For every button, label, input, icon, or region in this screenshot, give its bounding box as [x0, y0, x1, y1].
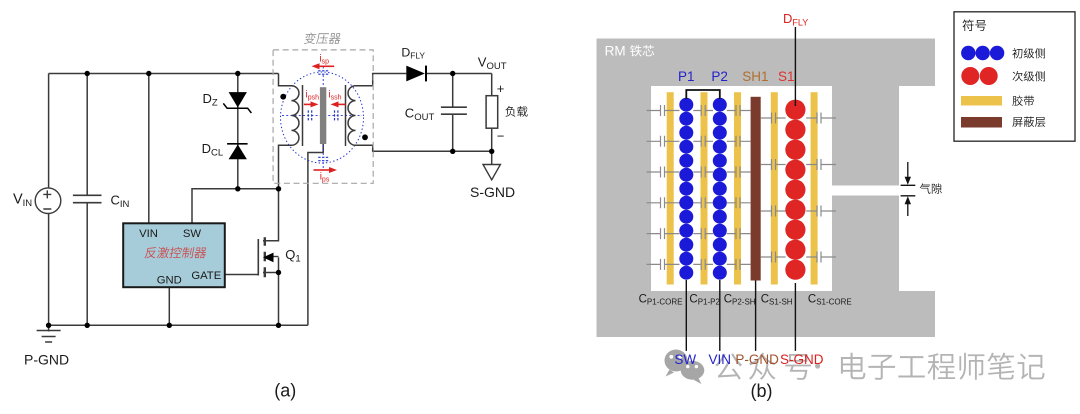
label qixi (air gap): [920, 183, 942, 194]
svg-text:SW: SW: [183, 228, 202, 240]
label fanji kongzhiqi (flyback controller): [144, 247, 207, 258]
dashed line vertical shield axis: [322, 67, 324, 169]
wire P2 to VIN: [719, 280, 721, 351]
legend label pingbiceng (shield layer): [1012, 117, 1045, 127]
label fuzai (load): [505, 106, 527, 117]
svg-text:(b): (b): [751, 381, 773, 401]
capacitor C_P1-CORE row y=172: [647, 167, 680, 178]
legend label cijice (secondary side): [1012, 71, 1045, 81]
parasitic coupling ellipse (blue dotted): [281, 72, 364, 163]
diode DCL: [227, 144, 248, 159]
transformer secondary winding: [348, 86, 355, 146]
current arrow i_ps: [314, 169, 330, 171]
capacitor C_P1-CORE row y=141.3: [647, 136, 680, 147]
RM core center leg upper (above air gap): [832, 86, 899, 186]
legend shield bar: [961, 117, 1002, 128]
node load bottom junction: [489, 149, 494, 154]
capacitor C_P1-P2 row y=202.8: [693, 197, 713, 208]
zener diode DZ: [223, 92, 251, 113]
svg-text:GND: GND: [157, 275, 182, 287]
current arrow i_ssh: [339, 103, 346, 105]
capacitor C_P2-SH row y=233.6: [727, 228, 751, 239]
transformer dashed boundary box: [273, 50, 373, 183]
svg-text:P1: P1: [678, 69, 695, 84]
current arrow i_sp: [320, 65, 335, 67]
node DCL bottom junction: [235, 186, 240, 191]
wire SW to drain node: [192, 189, 279, 224]
op-amp/controller U1 flyback controller box: [123, 223, 225, 287]
capacitor C_P1-CORE row y=202.8: [647, 197, 680, 208]
wire VIN source top: [48, 74, 50, 189]
capacitor CIN: [73, 195, 102, 202]
svg-text:P-GND: P-GND: [24, 352, 69, 368]
current arrow i_psh: [304, 103, 311, 105]
wire SH1 to P-GND: [755, 281, 757, 351]
capacitor parasitic primary-shield: [308, 110, 311, 120]
RM core left leg: [597, 86, 652, 291]
watermark wechat icon: [665, 350, 705, 385]
svg-text:S-GND: S-GND: [780, 352, 824, 367]
winding S1 turns (red): [785, 100, 805, 280]
wire PGND bottom rail: [49, 324, 308, 326]
watermark interpunct: [815, 363, 820, 368]
node Q1 source-body junction: [276, 270, 281, 275]
shield layer SH1 bar: [751, 97, 761, 281]
wire CIN branch: [86, 74, 88, 326]
svg-text:VIN: VIN: [709, 352, 732, 367]
capacitor parasitic bottom (shield): [318, 157, 328, 160]
wire COUT branch: [452, 74, 454, 152]
wire GATE to Q1: [225, 274, 258, 276]
capacitor C_S1-CORE row y=164.5: [806, 159, 836, 170]
transformer core bar left: [302, 85, 304, 146]
capacitor C_P1-CORE row y=264.4: [647, 259, 680, 270]
capacitor C_P1-P2 row y=172: [693, 167, 713, 178]
tape bar 1 (jiaodai): [667, 92, 674, 284]
wire primary bottom lead: [279, 145, 292, 189]
wire shield lead to PGND rail: [308, 144, 323, 325]
node GND rail junction: [167, 323, 172, 328]
ground P-GND symbol: [37, 331, 61, 343]
capacitor C_P1-P2 row y=233.6: [693, 228, 713, 239]
svg-text:RM: RM: [605, 44, 626, 59]
capacitor C_P2-SH row y=264.4: [727, 259, 751, 270]
node DZ top junction: [235, 71, 240, 76]
capacitor C_P2-SH row y=141.3: [727, 136, 751, 147]
legend label jiaodai (tape): [1012, 95, 1034, 105]
capacitor C_P2-SH row y=202.8: [727, 197, 751, 208]
wire clamp branch DZ DCL: [237, 74, 239, 189]
capacitor C_P1-P2 row y=264.4: [693, 259, 713, 270]
tape bar 4 (jiaodai): [771, 92, 778, 284]
voltage source VIN symbol: [35, 188, 61, 214]
capacitor C_S1-SH row y=164.5: [761, 159, 786, 170]
capacitor C_S1-SH row y=211: [761, 206, 786, 217]
wire P1-P2 series link bracket: [686, 90, 720, 99]
capacitor parasitic top (shield): [318, 71, 328, 74]
air gap dimension arrows: [901, 162, 916, 216]
capacitor C_S1-SH row y=118: [761, 113, 786, 124]
transistor Q1 body arrow: [263, 253, 274, 263]
tape bar 5 (jiaodai): [811, 92, 818, 284]
watermark text dianzi gongchengshi biji: [841, 353, 1045, 380]
resistor load (fuzai): [486, 96, 498, 129]
svg-text:VIN: VIN: [139, 228, 158, 240]
wire top rail: [49, 73, 279, 75]
capacitor C_P1-CORE row y=110.5: [647, 105, 680, 116]
svg-text:P2: P2: [711, 69, 728, 84]
capacitor C_S1-CORE row y=118: [806, 113, 836, 124]
node primary-drain junction: [276, 186, 281, 191]
transistor Q1 MOSFET: [258, 237, 278, 277]
label transformer (bianyaqi): [304, 33, 342, 44]
svg-text:(a): (a): [274, 381, 296, 401]
legend secondary circles: [961, 67, 997, 85]
capacitor parasitic secondary-shield: [335, 110, 338, 120]
wire secondary bottom lead / output bottom rail: [356, 145, 492, 151]
wire S1 to S-GND: [794, 283, 796, 351]
wire VIN pin: [148, 74, 150, 224]
winding P2 turns (blue): [713, 98, 727, 280]
svg-text:SH1: SH1: [742, 69, 768, 84]
winding P1 turns (blue): [679, 98, 693, 280]
node COUT bottom junction: [450, 149, 455, 154]
primary phase dot: [280, 94, 286, 100]
RM core top band: [597, 39, 936, 87]
legend box: [954, 12, 1075, 141]
capacitor COUT: [441, 107, 467, 114]
wire GND pin: [168, 287, 170, 325]
tape bar 2 (jiaodai): [701, 92, 708, 284]
svg-text:S1: S1: [778, 69, 795, 84]
wire P1 to SW: [685, 280, 687, 351]
wire Q1 drain: [263, 189, 279, 241]
node VIN top junction: [146, 71, 151, 76]
tape bar 3 (jiaodai): [734, 92, 741, 284]
transformer primary winding: [292, 86, 299, 146]
capacitor C_S1-CORE row y=211: [806, 206, 836, 217]
capacitor C_P2-SH row y=110.5: [727, 105, 751, 116]
legend label chujice (primary side): [1012, 48, 1045, 58]
transformer core bar right: [345, 85, 347, 146]
svg-text:SW: SW: [674, 352, 696, 367]
capacitor C_P1-CORE row y=233.6: [647, 228, 680, 239]
diode DFLY: [406, 66, 426, 82]
RM core center leg lower (below air gap): [832, 196, 899, 292]
svg-text:P-GND: P-GND: [735, 352, 779, 367]
wire VOUT drop to load: [491, 74, 493, 165]
capacitor C_P1-P2 row y=110.5: [693, 105, 713, 116]
watermark text gongzhonghao: [715, 353, 811, 380]
legend primary circles: [961, 46, 1004, 60]
node source rail junction: [276, 323, 281, 328]
wire Q1 source to PGND rail: [263, 257, 279, 325]
RM core bottom band: [597, 291, 936, 337]
capacitor C_S1-CORE row y=257: [806, 252, 836, 263]
node CIN bottom rail junction: [85, 323, 90, 328]
transformer shield bar: [320, 87, 326, 144]
ground S-GND symbol: [483, 165, 500, 180]
wire primary top lead: [279, 74, 292, 86]
wire DFLY to S1: [794, 27, 796, 106]
svg-text:−: −: [497, 129, 505, 144]
secondary phase dot: [362, 134, 368, 140]
dashed line horizontal parasitic axis: [282, 114, 362, 116]
legend title fuhao: [962, 19, 986, 30]
wire VIN source bottom: [48, 213, 50, 331]
legend tape bar: [961, 96, 1002, 106]
svg-text:+: +: [497, 81, 505, 96]
capacitor C_S1-SH row y=257: [761, 252, 786, 263]
node COUT top junction: [450, 71, 455, 76]
capacitor C_P2-SH row y=172: [727, 167, 751, 178]
node VIN bottom rail junction: [46, 323, 51, 328]
wire secondary top lead to DFLY: [356, 74, 492, 86]
node CIN top junction: [85, 71, 90, 76]
svg-text:S-GND: S-GND: [470, 184, 515, 200]
capacitor C_P1-P2 row y=141.3: [693, 136, 713, 147]
svg-text:GATE: GATE: [191, 270, 221, 282]
